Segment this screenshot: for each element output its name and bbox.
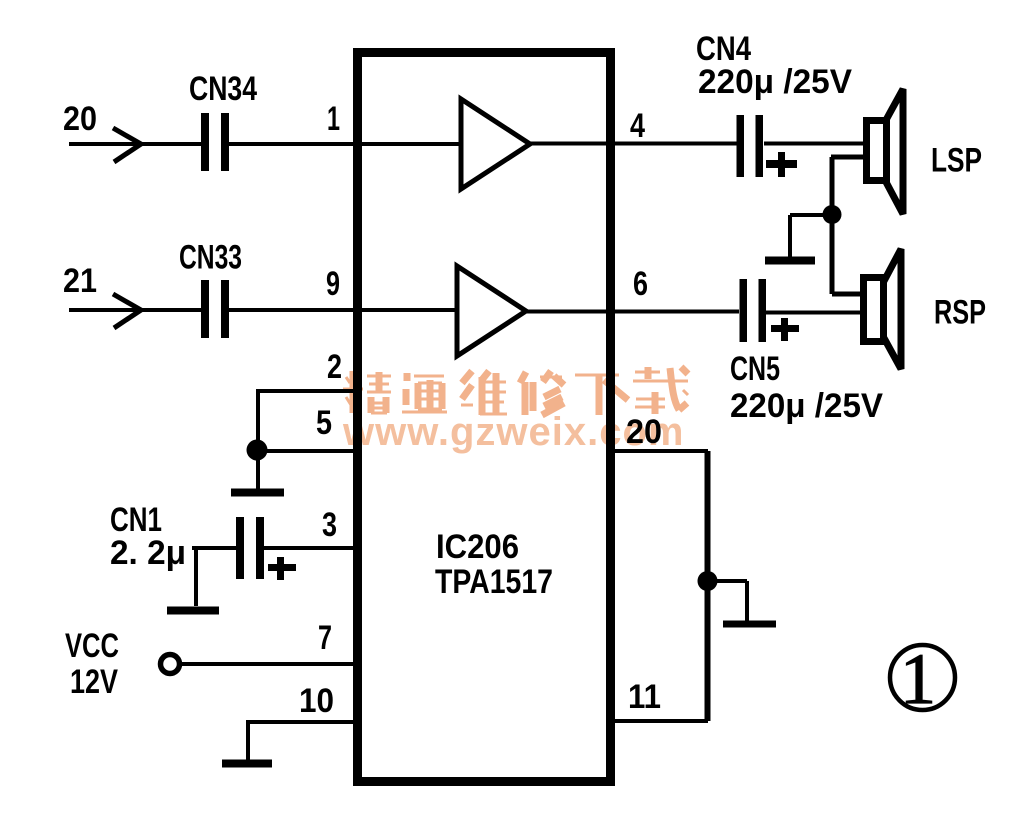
- svg-text:20: 20: [626, 413, 662, 451]
- svg-text:2. 2μ: 2. 2μ: [110, 534, 186, 572]
- svg-text:10: 10: [299, 682, 334, 720]
- svg-text:7: 7: [318, 619, 332, 657]
- svg-text:5: 5: [316, 404, 332, 442]
- svg-text:6: 6: [633, 265, 648, 303]
- svg-text:VCC: VCC: [65, 627, 119, 665]
- svg-text:12V: 12V: [70, 663, 118, 701]
- svg-text:RSP: RSP: [934, 294, 986, 332]
- svg-text:1: 1: [900, 639, 936, 719]
- svg-text:LSP: LSP: [931, 142, 982, 180]
- svg-text:CN33: CN33: [179, 239, 242, 277]
- svg-text:TPA1517: TPA1517: [435, 563, 553, 601]
- svg-text:2: 2: [327, 348, 342, 386]
- svg-text:1: 1: [327, 100, 340, 138]
- svg-text:21: 21: [63, 262, 97, 300]
- svg-text:4: 4: [630, 107, 645, 145]
- svg-text:220μ /25V: 220μ /25V: [698, 63, 852, 101]
- svg-text:20: 20: [63, 100, 97, 138]
- svg-text:3: 3: [322, 506, 337, 544]
- svg-text:IC206: IC206: [436, 528, 519, 566]
- svg-text:9: 9: [326, 265, 340, 303]
- svg-text:11: 11: [628, 678, 661, 716]
- svg-text:CN34: CN34: [189, 70, 257, 108]
- svg-text:CN5: CN5: [730, 350, 780, 388]
- svg-text:220μ /25V: 220μ /25V: [730, 387, 883, 425]
